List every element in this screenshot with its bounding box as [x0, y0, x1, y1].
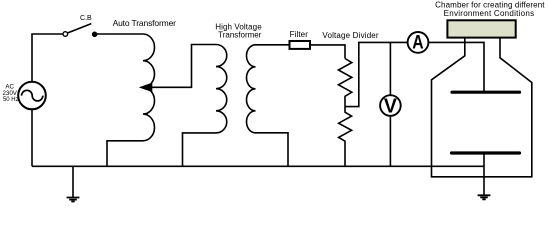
svg-text:Filter: Filter [290, 30, 309, 39]
AC source V1 [18, 82, 46, 110]
top electrode bar [452, 91, 520, 94]
ground at chamber [478, 195, 491, 199]
ammeter A [408, 32, 429, 53]
ground at left [72, 166, 74, 197]
wire ammeter to chamber electrode feed [428, 42, 484, 92]
svg-text:230V: 230V [2, 90, 17, 97]
resistor R1 (voltage divider upper) [338, 59, 351, 107]
AC sine wave [22, 90, 43, 101]
bottom electrode feed to ground [483, 153, 485, 195]
switch C.B blade [68, 24, 92, 33]
wire AC top to switch corner [32, 34, 63, 82]
wire switch to auto transformer [97, 33, 143, 35]
wire secondary top to filter [256, 44, 290, 46]
tap between divider resistors [345, 42, 408, 106]
voltmeter V [380, 95, 401, 116]
svg-text:Voltage Divider: Voltage Divider [322, 31, 379, 40]
svg-text:Environment Conditions: Environment Conditions [444, 9, 535, 18]
resistor R2 (voltage divider lower) [339, 107, 352, 167]
chamber top box [447, 20, 515, 37]
HV transformer secondary coil [247, 45, 289, 167]
svg-text:V: V [384, 96, 398, 118]
HV transformer primary coil [183, 45, 227, 167]
wire tap to HV transformer primary [151, 45, 216, 88]
bottom electrode bar [452, 151, 520, 154]
svg-text:50 Hz: 50 Hz [3, 97, 19, 103]
chamber vessel outline [432, 38, 532, 177]
wire AC bottom to rail [31, 109, 33, 166]
svg-text:C.B: C.B [80, 15, 92, 22]
svg-text:Auto Transformer: Auto Transformer [113, 18, 177, 28]
auto transformer T1 coil [107, 34, 155, 166]
bottom rail wire [32, 165, 484, 167]
svg-text:A: A [412, 33, 424, 54]
wire filter to voltage divider [310, 45, 345, 59]
svg-text:Transformer: Transformer [218, 30, 262, 39]
switch C.B open contact [63, 32, 68, 37]
voltmeter V wire bottom [389, 116, 391, 167]
tap arrow on auto transformer [140, 83, 152, 91]
filter box [290, 41, 311, 49]
voltmeter V wire top [389, 42, 391, 95]
switch C.B closed contact [92, 32, 97, 37]
